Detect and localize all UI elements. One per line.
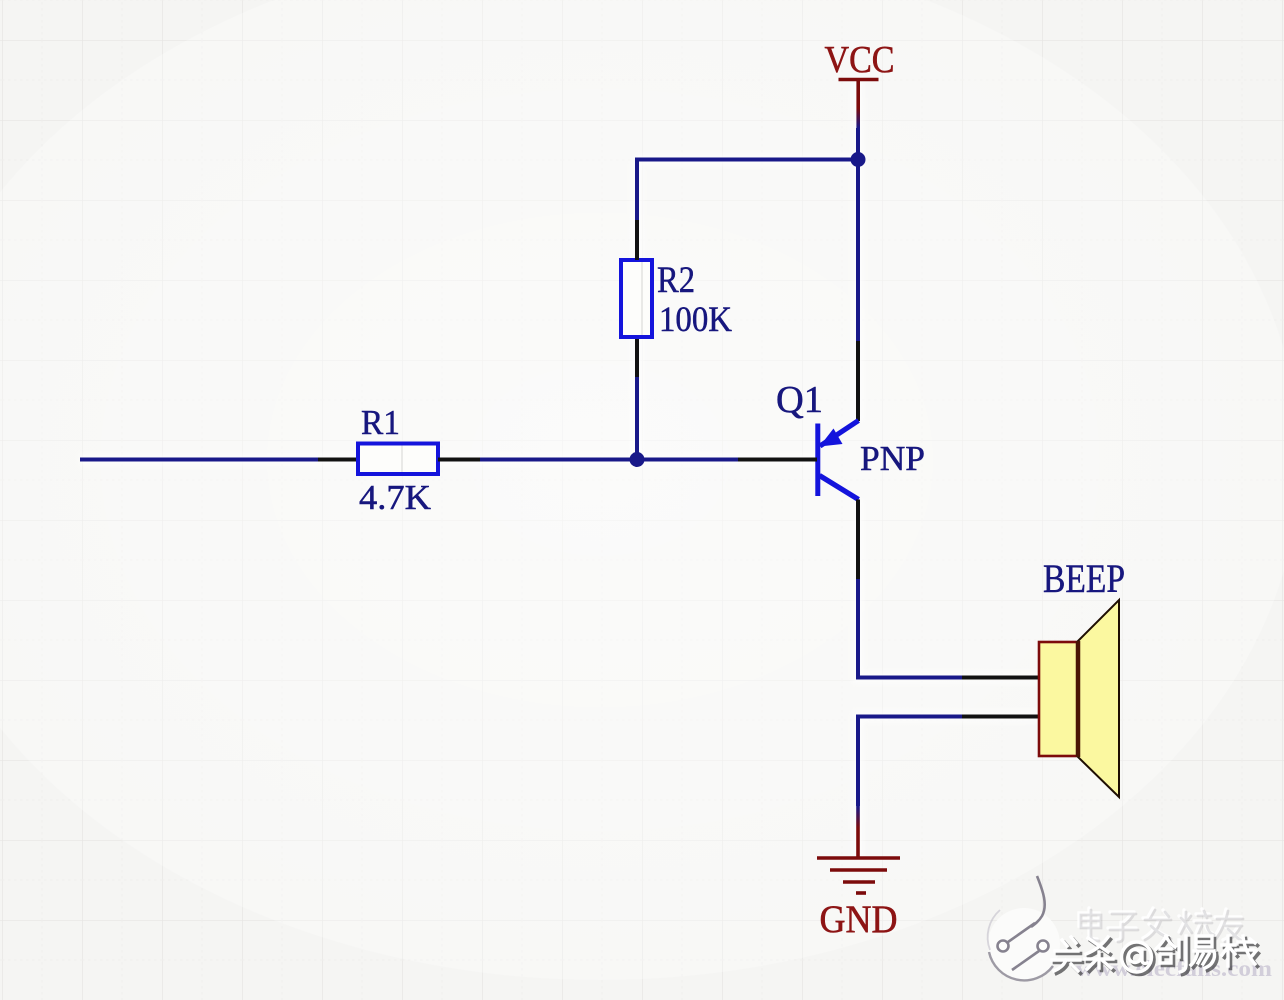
wire: base node up to R2 [635, 377, 639, 460]
svg-text:Q1: Q1 [776, 379, 823, 421]
svg-text:4.7K: 4.7K [359, 478, 431, 517]
svg-text:BEEP: BEEP [1043, 556, 1125, 601]
transistor Q1 base pin [738, 458, 817, 462]
ground stem red [856, 828, 860, 858]
svg-text:100K: 100K [659, 299, 732, 339]
resistor R2 bottom pin [635, 337, 639, 377]
transistor Q1 collector pin [856, 500, 860, 580]
svg-text:GND: GND [820, 898, 898, 941]
transistor Q1 emitter pin [856, 341, 860, 421]
svg-text:R2: R2 [657, 260, 695, 301]
wire white halo [80, 80, 1040, 859]
speaker LS1 bottom pin [962, 715, 1040, 719]
ground bar 3 [843, 880, 875, 884]
wire: R1 to base node [480, 458, 738, 462]
ground bar 4 [856, 891, 866, 895]
wire: left input to R1 [80, 458, 318, 462]
wire: speaker bottom stub to ground [858, 717, 962, 807]
resistor R2 inner grid line [641, 262, 643, 335]
resistor R1 body fill [358, 444, 438, 475]
resistor R1 inner grid line [401, 445, 403, 473]
transistor Q1 base bar [815, 424, 820, 497]
junction node at base wire [630, 452, 645, 467]
transistor Q1 emitter diagonal [820, 421, 859, 447]
watermark faint text dian [1079, 908, 1243, 942]
transistor Q1 emitter arrow [820, 429, 843, 447]
svg-text:VCC: VCC [825, 39, 895, 81]
resistor R2 body [621, 260, 652, 337]
svg-text:PNP: PNP [860, 439, 925, 478]
svg-text:R1: R1 [361, 403, 400, 442]
resistor R1 body [358, 444, 438, 475]
wire: VCC to junction and down to Q1 emitter [856, 128, 860, 341]
wire: collector down and right to speaker top [858, 579, 962, 678]
speaker BEEP divider line [1076, 641, 1081, 757]
transistor Q1 collector diagonal [820, 476, 859, 500]
ground bar 1 [817, 856, 900, 860]
resistor R2 top pin [635, 220, 639, 260]
ground bar 2 [830, 868, 887, 872]
power port VCC stem [856, 80, 860, 109]
power port VCC bar [839, 78, 879, 82]
resistor R1 right pin [438, 458, 480, 462]
wire: R2 top to corner and across to VCC rail [637, 160, 858, 221]
watermark logo circle [988, 876, 1060, 980]
speaker BEEP horn [1078, 600, 1119, 797]
speaker BEEP body rectangle [1039, 642, 1078, 756]
resistor R2 body fill [621, 260, 652, 337]
junction node at VCC rail [851, 152, 866, 167]
speaker LS1 top pin [962, 676, 1040, 680]
watermark headline toutiao [1052, 936, 1259, 975]
resistor R1 left pin [318, 458, 358, 462]
